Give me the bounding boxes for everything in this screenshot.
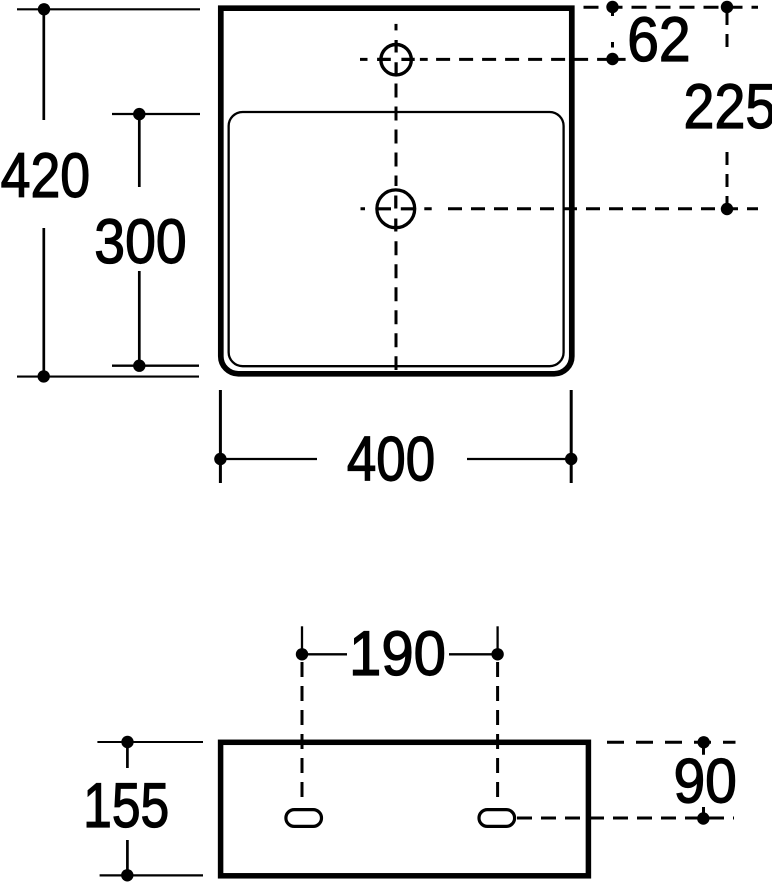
dim line 400 xyxy=(220,458,571,460)
dashed line 90 top xyxy=(607,741,736,744)
ext line 400 right xyxy=(570,390,573,483)
vertical centerline xyxy=(395,24,398,31)
dot 62 bottom xyxy=(606,53,618,65)
dot 90 bottom xyxy=(697,812,709,824)
svg-text:225: 225 xyxy=(684,72,772,142)
dashed line top edge extension xyxy=(584,6,759,9)
ext line 420 bottom xyxy=(17,376,199,378)
dim line 155 xyxy=(126,742,129,875)
dot 155 top xyxy=(121,736,133,748)
dot 225 bottom xyxy=(721,203,733,215)
svg-text:62: 62 xyxy=(627,5,690,75)
dashed vertical 225 xyxy=(726,12,729,203)
svg-text:420: 420 xyxy=(1,141,91,211)
dot 225 top xyxy=(721,1,733,13)
dot 400 left xyxy=(214,453,226,465)
dashed line 90 bottom xyxy=(517,817,734,820)
svg-text:155: 155 xyxy=(83,771,169,841)
drain crosshair xyxy=(377,196,416,232)
dot 400 right xyxy=(565,453,577,465)
dim line 420 xyxy=(42,9,45,376)
dim line 190 xyxy=(302,653,498,655)
mounting hole right xyxy=(479,810,515,827)
dot 190 left xyxy=(296,648,308,660)
dot 420 bottom xyxy=(38,370,50,382)
ext line 155 top xyxy=(97,741,203,743)
dashed vertical 190 right xyxy=(496,662,499,806)
dot 155 bottom xyxy=(121,869,133,881)
ext line 300 bottom xyxy=(112,365,199,367)
dashed line drain level xyxy=(361,207,432,210)
svg-text:400: 400 xyxy=(347,425,435,495)
drain hole xyxy=(377,190,415,228)
tick 190 right xyxy=(496,626,498,654)
ext line 300 top xyxy=(112,113,200,115)
ext line 155 bottom xyxy=(100,874,203,876)
mounting hole left xyxy=(286,810,322,827)
dim line 300 xyxy=(138,114,141,366)
tick 190 left xyxy=(301,626,303,654)
dot 190 right xyxy=(491,648,503,660)
pedestal outline (front view) xyxy=(221,742,589,876)
dashed vertical 190 left xyxy=(301,662,304,806)
dot 420 top xyxy=(38,3,50,15)
ext line 400 left xyxy=(219,390,222,483)
dot 90 top xyxy=(698,736,710,748)
faucet hole xyxy=(381,45,411,75)
dot 300 top xyxy=(133,108,145,120)
basin inner bowl xyxy=(229,112,564,366)
dashed vertical 62 xyxy=(611,11,614,48)
svg-text:90: 90 xyxy=(673,747,737,817)
basin outer outline (top view) xyxy=(221,8,572,374)
svg-text:190: 190 xyxy=(349,619,446,689)
dot 62 top xyxy=(606,1,618,13)
svg-text:300: 300 xyxy=(94,207,186,277)
dashed line faucet level xyxy=(360,58,626,61)
ext line 420 top xyxy=(17,8,200,10)
faucet crosshair xyxy=(377,40,415,75)
dashed vertical 90 xyxy=(702,747,705,814)
dot 300 bottom xyxy=(133,360,145,372)
